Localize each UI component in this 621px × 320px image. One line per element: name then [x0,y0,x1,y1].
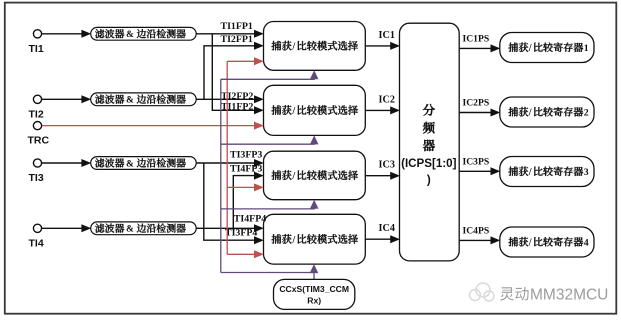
filter block 1: 滤波器 & 边沿检测器 [91,27,197,40]
register box 捕获/比较寄存器3 [500,157,594,187]
svg-text:IC4PS: IC4PS [463,226,490,237]
svg-text:TI3: TI3 [29,172,44,184]
svg-text:&: & [126,96,134,106]
register box 捕获/比较寄存器2 [500,97,594,127]
svg-text:IC2: IC2 [379,94,395,105]
svg-text:/: / [291,235,295,246]
input node TI1 [29,30,44,55]
svg-text:MM32MCU: MM32MCU [530,287,608,304]
wire TI4 to filter [42,224,91,232]
purple branch to box3 bottom [221,200,319,209]
svg-text:TI1: TI1 [29,43,44,55]
input node TI2 [29,95,44,120]
svg-text:1: 1 [584,43,589,54]
watermark logo mark (cloud) [470,283,495,301]
register box 捕获/比较寄存器4 [500,227,594,257]
svg-text:IC2PS: IC2PS [463,98,490,109]
svg-text:TI4FP3: TI4FP3 [230,163,262,174]
purple CCxS bus vertical [220,79,222,272]
wire IC1PS: prescaler to register 1 [459,34,500,53]
wire IC2: box2 to prescaler [365,94,400,114]
red TRC branch to box3 [227,183,264,191]
svg-text:/: / [528,238,532,249]
wire IC3: box3 to prescaler [365,160,400,180]
svg-text:IC4: IC4 [379,223,395,234]
input node TI3 [29,159,44,184]
wire TI1FP2: filter1 down via junction to box2 input2 [212,34,263,115]
svg-text:TI3FP3: TI3FP3 [230,149,262,160]
wire IC2PS: prescaler to register 2 [459,98,500,117]
svg-text:TI2FP1: TI2FP1 [221,34,253,45]
wire TRC red horizontal into box2 red input [42,122,264,130]
svg-text:(ICPS[1:0]: (ICPS[1:0] [401,157,457,170]
wire TI2 to filter [42,95,91,103]
wire TI4FP3: filter4 up via junction to box3 input2 [230,163,264,228]
CCxS control box CCxS(TIM3_CCMRx) [274,279,355,309]
svg-text:IC3: IC3 [379,160,395,171]
svg-text:IC3PS: IC3PS [463,157,490,168]
svg-text:&: & [126,30,134,40]
svg-text:TI3FP4: TI3FP4 [225,228,257,239]
svg-text:TRC: TRC [28,134,50,146]
register box 捕获/比较寄存器1 [500,33,594,63]
mode select box 3: 捕获/比较模式选择 [264,151,366,200]
wire TI2FP1: filter2 up via junction to box1 input2 [204,34,264,99]
filter block 2: 滤波器 & 边沿检测器 [91,93,197,106]
svg-text:&: & [126,159,134,169]
svg-text:/: / [528,167,532,178]
svg-text:/: / [528,108,532,119]
input node TRC [28,122,50,147]
svg-text:TI1FP1: TI1FP1 [221,21,253,32]
wire TI1FP1: filter1 to box1 input1 [196,21,264,38]
wire TI2FP2: filter2 to box2 input1 [196,91,264,104]
wire IC3PS: prescaler to register 3 [459,157,500,176]
watermark text 灵动MM32MCU [500,287,608,304]
red TRC branch to box4 [227,250,264,258]
svg-text:IC1: IC1 [379,30,395,41]
red TRC branch to box1 [227,57,264,65]
svg-text:&: & [126,225,134,235]
svg-text:): ) [427,174,431,187]
red TRC bus vertical [226,61,228,254]
wire IC1: box1 to prescaler [365,30,400,50]
wire TI4FP4: filter4 to box4 input1 [196,213,266,232]
wire TI1 to filter [42,30,91,38]
svg-text:4: 4 [584,238,589,249]
svg-text:/: / [291,106,295,117]
svg-text:2: 2 [584,108,589,119]
wire TI3FP3: filter3 to box3 input1 [196,149,264,167]
input node TI4 [29,224,44,249]
wire IC4: box4 to prescaler [365,223,400,243]
wire TI3FP4: filter3 down via junction to box4 input2 [204,163,264,244]
purple bottom leg to CCxS riser [221,272,314,274]
wire IC4PS: prescaler to register 4 [459,226,500,245]
purple branch to box2 bottom [221,135,319,144]
svg-text:/: / [291,171,295,182]
mode select box 4: 捕获/比较模式选择 [264,214,366,264]
svg-text:TI2: TI2 [29,109,44,121]
mode select box 1: 捕获/比较模式选择 [264,22,366,71]
purple riser CCxS to box4 bottom [310,264,319,279]
svg-text:3: 3 [584,167,589,178]
filter block 4: 滤波器 & 边沿检测器 [91,222,197,235]
svg-text:CCxS(TIM3_CCM: CCxS(TIM3_CCM [279,284,349,294]
filter block 3: 滤波器 & 边沿检测器 [91,157,197,170]
svg-text:TI4FP4: TI4FP4 [234,213,266,224]
wire TI3 to filter [42,159,91,167]
svg-text:/: / [291,42,295,53]
mode select box 2: 捕获/比较模式选择 [264,85,366,135]
prescaler box 分频器 (ICPS[1:0]) [400,23,460,261]
svg-text:/: / [528,43,532,54]
svg-text:TI1FP2: TI1FP2 [221,101,253,112]
svg-text:TI2FP2: TI2FP2 [221,91,253,102]
svg-text:Rx): Rx) [307,296,321,306]
svg-text:TI4: TI4 [29,238,44,250]
purple branch to box1 bottom [221,70,319,79]
svg-text:IC1PS: IC1PS [463,34,490,45]
